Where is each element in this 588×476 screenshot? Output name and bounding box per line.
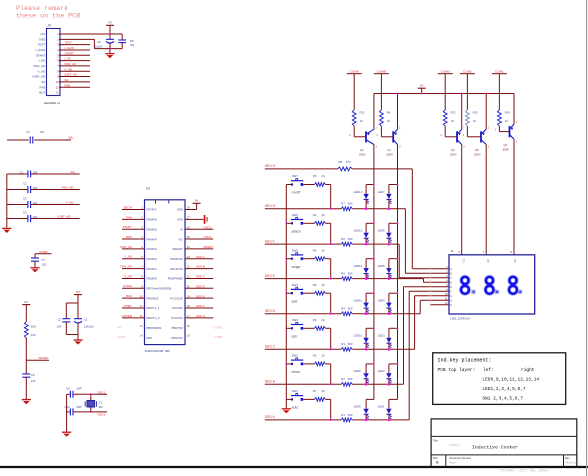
transistor Q4 8550 [495,121,518,151]
svg-text:<Doc>: <Doc> [449,461,457,465]
svg-text:SA: SA [65,78,69,82]
wire SEG G to display [405,209,448,274]
display segment pin 12 [430,301,453,307]
U1 pin 23 / net SEG A [170,255,213,261]
svg-text:I_AD: I_AD [64,57,71,61]
svg-text:VDD: VDD [177,208,183,212]
wire SEG E [265,278,424,280]
svg-text:G: G [450,295,452,298]
transistor Q5 8550 [463,126,490,156]
svg-text:clean: clean [292,370,300,374]
svg-text:SH66L08A/28 28P: SH66L08A/28 28P [145,349,171,353]
svg-text:Y1: Y1 [99,400,103,404]
svg-text:11: 11 [56,85,59,89]
svg-text:COM2: COM2 [117,335,126,339]
net COM1 [492,69,507,73]
wire J4 pin 5 / net START [59,51,90,55]
net SEG H [265,164,276,168]
wire J4 pin 4 / net I_GAIN [59,46,90,50]
svg-text:C1: C1 [84,318,88,322]
U1 pin 17 / net SEG G [171,314,213,320]
ground (C7) [30,268,39,273]
wire J4 pin 7 / net PAN_AD [59,62,90,66]
svg-text:R9: R9 [313,318,317,322]
svg-text:Q2: Q2 [360,148,364,152]
svg-text:TEST: TEST [38,43,46,47]
capacitor C10 20P / net OSC2 [65,405,108,416]
wire SEG H [265,168,413,170]
wire J4 pin 6 / net I_AD [59,57,90,61]
svg-text:1K: 1K [321,354,325,358]
junction (LED column) [373,184,375,186]
svg-text:R6: R6 [313,283,317,287]
svg-text:C3: C3 [513,259,517,263]
svg-text:V_AD: V_AD [124,274,132,278]
svg-text:SEG B: SEG B [196,265,205,269]
capacitor C2 104 [57,318,71,335]
svg-text:FAN: FAN [65,83,71,87]
svg-text:/RESET: /RESET [172,247,183,251]
junction (key bus) [285,258,287,260]
U1 pin 18 / net SEG F [172,304,213,310]
svg-text:Title: Title [433,438,438,442]
svg-text:LOWER: LOWER [121,314,132,318]
power rail 5V (drivers) [374,84,514,94]
junction (LED column) [373,258,375,260]
svg-text:101: 101 [130,43,135,47]
net OVER [35,250,52,254]
display segment pin 3 [430,274,453,280]
resistor R9 1K [380,110,391,127]
LED LED7 [378,185,398,211]
ground (C8) [22,400,31,405]
net COMA [347,69,362,73]
svg-text:SW6: SW6 [292,213,299,217]
svg-text:OSC1: OSC1 [97,390,106,394]
svg-text:IGBT_AD: IGBT_AD [58,215,72,219]
wire Q3 emitter to 5V rail [461,94,463,130]
svg-text:SEG C: SEG C [196,275,205,279]
net SEG E [265,274,276,278]
svg-text:START: START [36,53,46,57]
wire J4 pin2 GND [59,39,122,48]
svg-text:4M: 4M [99,405,104,409]
junction [109,33,111,50]
svg-text:C3: C3 [23,196,27,200]
ground (filter caps) [2,228,11,233]
svg-text:Document Number: Document Number [449,456,471,460]
U1 pin 19 / net SEG E [170,294,213,300]
svg-text:560: 560 [348,237,353,241]
svg-text:PB1/T01: PB1/T01 [172,336,184,340]
svg-text:PB6/PWM1: PB6/PWM1 [147,326,162,330]
junction (LED column) [397,327,399,329]
svg-text:BUZ: BUZ [39,91,45,95]
svg-text:SEG F: SEG F [265,239,275,243]
svg-text:C: C [450,277,452,280]
svg-text:COMA: COMA [350,69,360,73]
svg-text:10: 10 [445,292,448,296]
svg-text:C2: C2 [486,259,490,263]
svg-text:H: H [450,300,452,303]
capacitor C2 104 / net PAN_AD [7,181,80,193]
svg-text:I_AD: I_AD [125,255,132,259]
svg-text:TEST: TEST [65,41,73,45]
U1 pin 7 / net FAN_AD [121,265,158,271]
wire Q4 emitter to 5V rail [513,94,515,125]
junction (key bus) [285,363,287,365]
junction (key bus) [285,222,287,224]
J4 pin 12 BUZ [39,91,59,95]
svg-text:27: 27 [187,215,190,219]
U1 pin 15 (NC) / net COMB [172,334,223,340]
svg-text:C2: C2 [23,181,27,185]
capacitor C6 10u/16V [94,34,115,49]
resistor R9 1K (key) [303,318,331,330]
svg-text:IGBT_AD: IGBT_AD [32,75,46,79]
svg-text:12: 12 [56,91,59,95]
svg-text:10u/16V: 10u/16V [94,45,103,48]
svg-text:R7: R7 [313,389,317,393]
svg-text:FAN: FAN [126,215,132,219]
svg-text:Q3: Q3 [451,148,455,152]
wire Q5 emitter to 5V rail [485,94,487,130]
wire SEG G [265,208,406,210]
svg-text:20P: 20P [77,405,82,409]
svg-text:SEG F: SEG F [196,304,205,308]
svg-text:I_GAIN: I_GAIN [35,48,45,52]
svg-text:560: 560 [348,307,353,311]
svg-text:PA7/KI7: PA7/KI7 [147,208,158,212]
svg-text:OSC2: OSC2 [97,412,106,416]
svg-text:R8: R8 [339,160,343,164]
svg-text:R9: R9 [387,110,391,114]
svg-text:COMB: COMB [214,335,223,339]
svg-text:560: 560 [348,413,353,417]
svg-text:1K: 1K [505,119,508,123]
display segment pin 10 [430,292,453,298]
switch SW3 (sub) [286,318,303,339]
display segment pin 5 [430,283,453,289]
wire J4 pin 3 / net TEST [59,41,90,45]
junction (LED column) [397,258,399,260]
svg-text:V_AD: V_AD [66,201,75,205]
svg-text:VSS: VSS [177,218,183,222]
svg-text:V_AD: V_AD [37,69,46,73]
resistor R10 1K [466,110,479,127]
transistor Q3 8550 [440,126,465,156]
svg-text:LED2: LED2 [378,369,385,373]
U1 pin 1 / net SEGH [122,205,157,211]
svg-text:LED10: LED10 [354,334,363,338]
LED LED2 [378,364,398,386]
capacitor C8 104 [22,373,36,399]
svg-text:RESET: RESET [39,356,49,360]
svg-text:PA0/KI0: PA0/KI0 [147,277,158,281]
net SEG F [265,239,275,243]
junction (key bus) [285,327,287,329]
resistor R1 560 [341,413,353,422]
svg-text:<Title>: <Title> [449,443,461,447]
net SEG D [265,309,276,313]
display segment pin 1 [430,265,453,271]
U1 pin 10 / net BUZ [122,294,159,300]
switch SW1 (auto) [286,389,303,410]
junction (LED column) [373,292,375,294]
svg-text:PC0/T02: PC0/T02 [171,316,183,320]
svg-text:COM1: COM1 [495,69,504,73]
svg-text:Rev: Rev [565,456,570,460]
svg-text:560: 560 [348,342,353,346]
wire decoupling bottom [66,335,78,340]
svg-text:SW7: SW7 [292,174,299,178]
LED LED11 [354,293,374,315]
svg-text:1K: 1K [360,119,363,123]
svg-text:SA: SA [41,80,45,84]
svg-text:R24: R24 [31,325,37,329]
svg-text:COMA: COMA [123,284,132,288]
svg-text:LED8: LED8 [354,405,361,409]
svg-text:LED14: LED14 [354,190,363,194]
svg-text:LED1,2,3,4,5,6,7: LED1,2,3,4,5,6,7 [482,386,526,392]
svg-text:SW5: SW5 [292,248,299,252]
svg-text:+5V: +5V [40,32,45,36]
power 5V (R24) [22,300,30,322]
svg-text:XI: XI [180,227,183,231]
connector J4 [44,24,60,105]
svg-text:8550: 8550 [359,153,366,157]
wire SEG D [265,313,420,315]
capacitor C3 104 / net V_AD [7,196,80,208]
wire SW3 to SEG line [330,328,332,350]
svg-text:20P: 20P [77,386,82,390]
svg-text:PC2/SO: PC2/SO [172,306,183,310]
J4 pin 6 I_AD [38,59,59,63]
svg-text:GND: GND [39,37,47,41]
svg-text:1K: 1K [321,283,325,287]
svg-text:R1: R1 [341,413,345,417]
resistor R7 560 [341,202,353,211]
svg-text:PB7/VrefKI0/SRDB: PB7/VrefKI0/SRDB [147,287,172,291]
resistor R2 560 [341,377,353,386]
svg-text:1K: 1K [451,119,454,123]
sheet border line [0,466,588,468]
svg-text:470: 470 [346,160,351,164]
svg-text:R2: R2 [313,213,317,217]
svg-text:COM1: COM1 [123,304,132,308]
svg-text:FAN_AD: FAN_AD [121,265,132,269]
net SEG A [265,415,276,419]
svg-text:C10: C10 [65,405,71,409]
switch SW2 (clean) [286,354,303,375]
svg-text:R10: R10 [473,110,478,114]
svg-text:PB0/T00: PB0/T00 [172,326,184,330]
svg-text:21: 21 [187,275,190,279]
svg-text:LED7: LED7 [378,190,385,194]
svg-text:I_AD: I_AD [38,59,46,63]
wire SW1 to SEG line [330,399,332,421]
svg-text:TUESDAY, JULY 05, 2005: TUESDAY, JULY 05, 2005 [499,469,548,473]
svg-text:5V: 5V [25,300,29,304]
svg-text:HEADER 12: HEADER 12 [44,101,60,105]
switch SW6 (select) [286,213,303,234]
U1 pin 24 / net RESET [172,245,213,251]
svg-text:560: 560 [348,272,353,276]
svg-text:PAN_AD: PAN_AD [34,64,47,68]
svg-text:SEGH: SEGH [124,205,132,209]
display segment pin 11 [430,297,453,303]
svg-text:select: select [292,230,301,234]
svg-text:100u/16v: 100u/16v [84,326,95,329]
svg-text:10K: 10K [31,333,36,337]
wire J4 pin 9 / net IGBT_AD [59,73,90,77]
svg-text:PB4/T1_0: PB4/T1_0 [147,316,160,320]
svg-text:1K: 1K [473,119,476,123]
transistor Q2 8550 [349,126,377,156]
svg-text:PD2/PWM3: PD2/PWM3 [168,277,183,281]
svg-text:OSC2: OSC2 [204,235,212,239]
svg-text:add: add [292,299,298,303]
svg-text:SEG E: SEG E [265,274,276,278]
svg-text:15: 15 [187,334,190,338]
capacitor C4 103 / net SA [7,130,74,144]
display J1 LED_DISPLAY [449,249,535,321]
J4 pin 10 SA [41,80,59,84]
svg-text:104: 104 [33,201,38,205]
U1 pin 4 / net 50W [122,235,157,241]
svg-text:PA4/KI4: PA4/KI4 [147,237,158,241]
display segment pin 9 [430,288,453,294]
svg-text:sub: sub [292,335,298,339]
wire SEG A to display [409,291,448,420]
resistor R13 1K [443,110,456,127]
resistor R2 1K (key) [303,213,331,225]
resistor R8 470 [338,160,353,171]
svg-text:LED_DISPLAY: LED_DISPLAY [450,316,470,320]
svg-text:right: right [521,367,535,373]
svg-text:SEG A: SEG A [196,255,205,259]
svg-text:SEG D: SEG D [265,309,276,313]
svg-text:R5: R5 [313,174,317,178]
wire decoupling tee [66,303,78,319]
U1 pin 6 / net I_AD [122,255,157,261]
LED LED14 [354,185,374,211]
resistor R7 1K (key) [303,389,331,401]
U1 pin 25 / net OSC2 [179,235,214,241]
svg-text:11: 11 [140,304,143,308]
resistor R5 1K (key) [303,174,331,186]
wire Q1 collector column [397,145,399,400]
U1 pin 27 VSS / ground [177,215,208,224]
svg-text:LED12: LED12 [354,264,363,268]
svg-text:8550: 8550 [503,147,510,151]
LED LED10 [354,328,374,350]
power 5V (J4 area) [106,21,114,34]
svg-text:OSC1: OSC1 [204,225,212,229]
wire Q5 collector column [485,145,487,255]
svg-text:SEG C: SEG C [265,345,276,349]
display common pin 6 [458,250,465,263]
wire SEG H to display [412,169,448,269]
U1 pin 28 VDD / power 5V [177,199,201,212]
svg-text:SEG G: SEG G [196,314,206,318]
wire Q2 emitter to 5V rail [373,94,375,130]
J4 pin 3 TEST [38,43,59,47]
capacitor C1 100u/16v [74,318,95,335]
svg-text:R13: R13 [451,110,456,114]
junction (5V rail) [397,93,488,95]
svg-text:8550: 8550 [386,153,393,157]
svg-text:COMB: COMB [377,69,386,73]
junction (OSC1) [90,393,92,395]
svg-text:COM2: COM2 [463,69,472,73]
svg-text:102: 102 [42,262,47,266]
LED LED8 [354,399,374,421]
J4 pin 11 FAN [39,85,59,89]
display segment pin 4 [430,279,453,285]
switch SW5 (range) [286,248,303,269]
J4 pin 8 V_AD [37,69,59,73]
svg-text:SW4: SW4 [292,283,299,287]
junction (LED column) [397,184,399,186]
resistor R24 10K [24,322,36,339]
wire SEG F [265,243,399,245]
net SEG C [265,345,276,349]
date text [499,469,548,473]
svg-text:1K: 1K [321,213,325,217]
wire COM2 to base resistor [466,74,468,110]
svg-text:8550: 8550 [474,153,481,157]
svg-text:C5: C5 [23,210,27,214]
note box Ind.key placement [433,353,566,405]
resistor R6 560 [341,237,353,246]
J4 pin 5 START [36,53,59,57]
LED LED5 [378,259,398,280]
svg-text:FAN: FAN [39,85,45,89]
svg-text:Q5: Q5 [475,148,479,152]
junction (LED column) [373,222,375,224]
wire SW5 to SEG line [330,259,332,280]
wire SEG E to display [424,279,449,283]
wire SEG B to display [404,287,449,385]
svg-text:LED3: LED3 [378,334,385,338]
svg-text:SW2: SW2 [292,354,299,358]
svg-text:1K: 1K [321,174,325,178]
title block [431,419,579,467]
svg-text:lef:: lef: [483,367,494,373]
svg-text:C1: C1 [20,170,24,174]
svg-text:LED13: LED13 [354,229,363,233]
ground (J4 area) [105,49,114,59]
wire J4 pin1 +5V [59,33,122,35]
resistor R14 1K [498,110,511,127]
LED LED13 [354,223,374,245]
junction (LED column) [397,222,399,224]
capacitor D8 101 [118,34,135,49]
svg-text:PA5/KI5: PA5/KI5 [147,227,158,231]
junction (OSC2) [90,411,92,413]
svg-text:R3: R3 [341,342,345,346]
svg-text:C1: C1 [461,259,465,263]
svg-text:1K: 1K [387,119,390,123]
svg-text:IGBT_AD: IGBT_AD [65,73,77,77]
junction (key bus) [285,292,287,294]
svg-text:XO: XO [179,237,184,241]
svg-text:LED11: LED11 [354,299,363,303]
svg-text:104: 104 [33,170,38,174]
svg-text:5V: 5V [195,199,198,203]
LED LED12 [354,259,374,280]
